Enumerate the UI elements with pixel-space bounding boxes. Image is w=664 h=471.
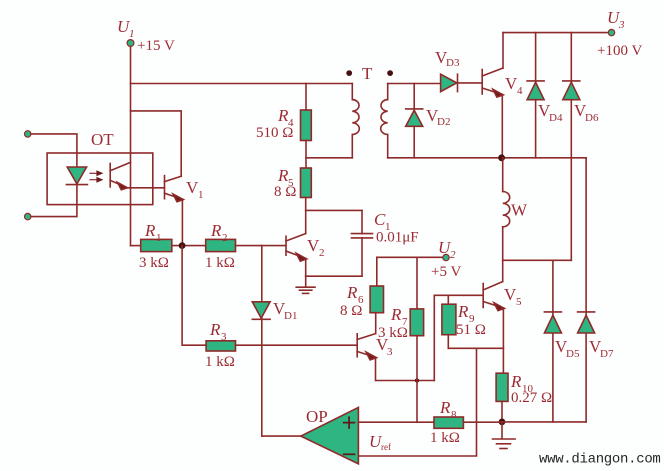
- wire OP plus input to R8: [358, 421, 434, 423]
- wire V4 emitter down: [501, 95, 503, 158]
- wire R6 to V3 collector: [375, 313, 377, 334]
- diode VD1: [252, 302, 270, 320]
- wire R1 to R2: [172, 245, 206, 247]
- junction dot emitter rail: [498, 154, 505, 161]
- svg-text:D6: D6: [585, 112, 599, 124]
- transistor V1: [165, 176, 184, 202]
- wire R4 to R5: [305, 141, 307, 169]
- LED in optocoupler: [66, 167, 87, 185]
- svg-text:+5 V: +5 V: [431, 264, 461, 280]
- wire V4 collector up: [502, 33, 504, 68]
- svg-text:8 Ω: 8 Ω: [340, 303, 362, 319]
- svg-text:D7: D7: [600, 348, 614, 360]
- wire V3 emitter to V5 base branch: [376, 380, 434, 382]
- svg-text:0.27 Ω: 0.27 Ω: [511, 390, 552, 406]
- wire +5V rail: [377, 257, 443, 286]
- resistor R9: [442, 295, 456, 348]
- svg-text:R: R: [510, 372, 522, 391]
- resistor R8: [434, 417, 463, 428]
- svg-text:3: 3: [618, 19, 625, 31]
- svg-text:R: R: [210, 221, 222, 240]
- diode VD4: [527, 81, 544, 100]
- wire U1 vertical rail: [130, 47, 132, 246]
- svg-text:3 kΩ: 3 kΩ: [139, 255, 169, 271]
- wire secondary bottom rail: [388, 157, 586, 159]
- transformer T secondary winding: [381, 84, 388, 158]
- light arrows of optocoupler: [90, 170, 103, 182]
- wire secondary top to VD3: [388, 83, 441, 85]
- transformer polarity dot left: [346, 70, 352, 76]
- ground bottom: [493, 422, 516, 449]
- resistor R1: [141, 239, 172, 251]
- svg-text:D4: D4: [549, 112, 563, 124]
- svg-text:3: 3: [221, 331, 227, 343]
- transformer T primary winding: [352, 84, 359, 158]
- wire V1 collector hook: [131, 111, 182, 176]
- wire VD6 branch: [570, 33, 572, 261]
- svg-text:OT: OT: [91, 130, 114, 149]
- node input terminal top: [25, 131, 31, 137]
- ground under V2: [296, 276, 315, 293]
- wire +15V horizontal rail: [131, 83, 353, 85]
- wire OP minus branch: [358, 348, 476, 456]
- svg-text:0.01μF: 0.01μF: [376, 230, 419, 246]
- wire R2 to V2 base: [236, 245, 287, 247]
- svg-text:8: 8: [451, 409, 457, 421]
- wire VD4 branch: [535, 33, 537, 158]
- svg-text:ref: ref: [381, 442, 391, 452]
- wire V5 emitter to R10: [502, 308, 504, 373]
- wire collector node to C1 top: [306, 209, 362, 211]
- wire V2 emitter to C1 bottom: [306, 275, 362, 277]
- svg-text:D5: D5: [566, 348, 580, 360]
- resistor R5: [301, 168, 312, 198]
- diode VD5: [544, 312, 561, 333]
- phototransistor of OT: [110, 162, 130, 190]
- svg-text:1: 1: [156, 232, 162, 244]
- transistor V2: [286, 234, 307, 262]
- svg-text:R: R: [390, 305, 402, 324]
- svg-text:1 kΩ: 1 kΩ: [430, 430, 460, 446]
- svg-text:51 Ω: 51 Ω: [456, 322, 486, 338]
- wire input top: [31, 134, 77, 167]
- diode VD3: [441, 74, 458, 91]
- svg-text:4: 4: [517, 85, 523, 97]
- svg-text:2: 2: [450, 249, 456, 261]
- svg-text:1: 1: [129, 28, 135, 40]
- inductor W: [503, 158, 510, 282]
- node U2 terminal: [443, 254, 449, 260]
- wire V1 emitter down: [181, 199, 183, 245]
- svg-text:2: 2: [319, 247, 325, 259]
- node U1 terminal: [127, 40, 134, 47]
- wire V2 emitter down: [305, 259, 307, 277]
- svg-text:R: R: [209, 320, 221, 339]
- wire VD5 branch: [552, 260, 554, 422]
- svg-text:R: R: [346, 283, 358, 302]
- svg-text:R: R: [439, 398, 451, 417]
- svg-text:W: W: [511, 201, 528, 220]
- wire V3 emitter down: [375, 357, 377, 380]
- svg-text:R: R: [457, 302, 469, 321]
- wire junction down to R3: [182, 246, 206, 346]
- svg-text:D3: D3: [446, 57, 460, 69]
- resistor R6: [370, 286, 383, 313]
- svg-text:R: R: [144, 221, 156, 240]
- svg-text:5: 5: [516, 296, 522, 308]
- resistor R10: [496, 373, 508, 401]
- resistor R3: [206, 341, 235, 351]
- node U3 terminal: [608, 29, 614, 35]
- wire R9 bottom to emitter: [448, 347, 503, 349]
- svg-text:www.diangon.com: www.diangon.com: [539, 452, 661, 468]
- resistor R7: [410, 257, 423, 422]
- wire VD7 branch from rail: [585, 158, 587, 422]
- wire R10 to bottom rail: [501, 401, 503, 422]
- wire primary bottom: [306, 157, 352, 159]
- wire bottom rail right: [502, 421, 586, 423]
- svg-text:OP: OP: [306, 407, 328, 426]
- svg-text:D1: D1: [284, 310, 297, 322]
- svg-text:+100 V: +100 V: [597, 43, 642, 59]
- svg-text:510 Ω: 510 Ω: [256, 125, 293, 141]
- svg-text:3: 3: [387, 346, 393, 358]
- wire OP output: [262, 435, 301, 437]
- svg-text:1 kΩ: 1 kΩ: [205, 255, 235, 271]
- wire R8 right: [463, 421, 502, 423]
- optocoupler OT box: [47, 153, 153, 205]
- svg-text:T: T: [362, 64, 373, 83]
- node input terminal bottom: [25, 213, 31, 219]
- wire VD1 vertical branch: [261, 246, 263, 437]
- op-amp OP: [301, 407, 359, 464]
- wire V5 base vertical: [433, 295, 435, 380]
- junction dot bottom rail: [499, 419, 506, 426]
- wire VD3 to V4 base: [457, 82, 482, 84]
- transistor V3: [357, 334, 376, 360]
- svg-text:2: 2: [222, 232, 228, 244]
- wire LED cathode to bottom terminal: [31, 185, 77, 217]
- diode VD6: [563, 81, 580, 100]
- wire R5 to V2 collector: [305, 198, 307, 234]
- junction dot R1/R2: [179, 242, 186, 249]
- wire R3 to V3 base: [236, 344, 357, 346]
- wire W bottom to VD6 bottom: [503, 259, 572, 261]
- diode VD2: [406, 109, 423, 126]
- resistor R2: [206, 239, 236, 251]
- wire phototransistor emitter to V1 base: [127, 187, 165, 189]
- resistor R4: [301, 84, 312, 141]
- svg-text:8 Ω: 8 Ω: [274, 184, 296, 200]
- svg-text:D2: D2: [437, 116, 450, 128]
- wire top +100V rail: [503, 32, 608, 34]
- capacitor C1: [352, 210, 373, 276]
- transformer polarity dot right: [387, 70, 393, 76]
- wire VD2 branch: [413, 84, 415, 158]
- junction dot R7 crossing: [415, 378, 419, 382]
- svg-text:+15 V: +15 V: [137, 38, 175, 54]
- svg-text:1 kΩ: 1 kΩ: [205, 354, 235, 370]
- diode VD7: [578, 312, 595, 333]
- wire into R1: [131, 245, 141, 247]
- svg-text:1: 1: [198, 189, 204, 201]
- transistor V4: [482, 68, 503, 97]
- transistor V5: [483, 282, 504, 311]
- wire V5 base horizontal: [434, 294, 483, 296]
